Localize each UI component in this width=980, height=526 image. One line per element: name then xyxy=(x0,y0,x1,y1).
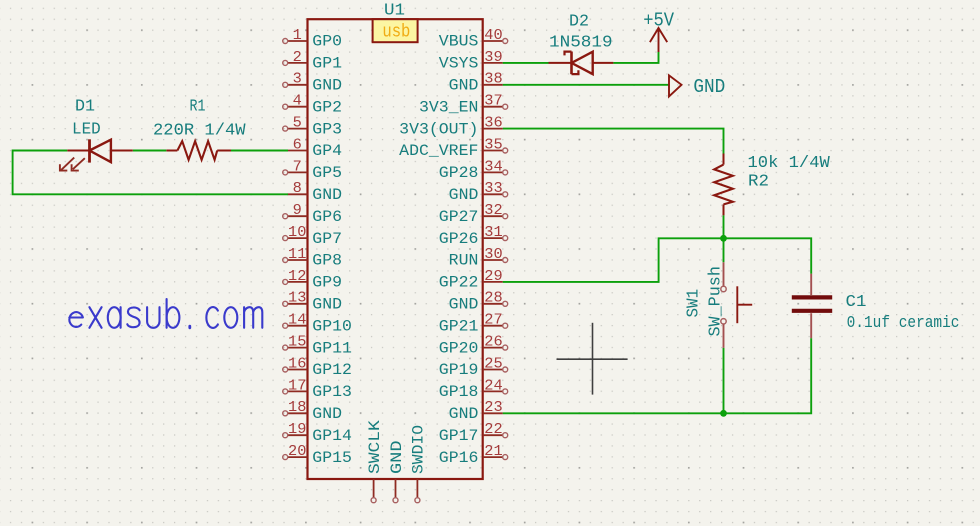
pin 2 (GP1) left xyxy=(283,49,342,73)
svg-text:GND: GND xyxy=(693,76,725,98)
svg-text:GP7: GP7 xyxy=(312,230,342,248)
svg-text:GP13: GP13 xyxy=(312,383,352,401)
svg-text:GP6: GP6 xyxy=(312,208,342,226)
svg-text:3: 3 xyxy=(293,71,302,88)
pin 10 (GP7) left xyxy=(283,224,342,248)
svg-text:18: 18 xyxy=(288,399,306,416)
svg-text:GP19: GP19 xyxy=(439,361,479,379)
svg-text:GP5: GP5 xyxy=(312,164,342,182)
junction bottom xyxy=(720,410,727,417)
svg-text:GP18: GP18 xyxy=(439,383,479,401)
svg-text:20: 20 xyxy=(288,443,306,460)
svg-text:24: 24 xyxy=(484,377,502,394)
svg-text:2: 2 xyxy=(293,49,302,66)
svg-text:usb: usb xyxy=(382,23,410,43)
svg-text:5: 5 xyxy=(293,115,302,132)
pin GND bottom xyxy=(388,441,406,503)
wire D2 to +5V xyxy=(613,52,658,63)
pin 22 (GP17) right xyxy=(439,421,508,445)
wire GP4 pin6 to R1 xyxy=(231,150,288,152)
svg-text:GP12: GP12 xyxy=(312,361,352,379)
svg-text:17: 17 xyxy=(288,377,306,394)
pin SWDIO bottom xyxy=(410,425,428,503)
usb box on U1 xyxy=(373,19,418,42)
wire C1 bottom to junction xyxy=(724,338,812,413)
switch SW1 SW_Push xyxy=(721,262,752,348)
svg-text:C1: C1 xyxy=(846,293,867,312)
svg-text:GND: GND xyxy=(312,405,342,423)
svg-text:15: 15 xyxy=(288,334,306,351)
svg-text:+5V: +5V xyxy=(643,9,674,31)
svg-text:1N5819: 1N5819 xyxy=(549,33,613,52)
svg-text:37: 37 xyxy=(484,93,502,110)
pin 33 (GND) right xyxy=(449,180,508,204)
svg-text:23: 23 xyxy=(484,399,502,416)
pin 3 (GND) left xyxy=(283,71,342,95)
svg-text:D2: D2 xyxy=(569,12,589,31)
pin 34 (GP28) right xyxy=(439,158,508,182)
svg-text:GP15: GP15 xyxy=(312,449,352,467)
svg-text:30: 30 xyxy=(484,246,502,263)
pin 7 (GP5) left xyxy=(283,158,342,182)
svg-text:40: 40 xyxy=(484,27,502,44)
svg-text:SWCLK: SWCLK xyxy=(366,419,384,474)
pin 1 (GP0) left xyxy=(283,27,342,51)
pin 28 (GND) right xyxy=(449,290,508,314)
svg-text:32: 32 xyxy=(484,202,502,219)
resistor R1 xyxy=(166,141,231,160)
svg-text:GND: GND xyxy=(449,296,479,314)
svg-text:VSYS: VSYS xyxy=(439,55,479,73)
svg-text:GP22: GP22 xyxy=(439,274,479,292)
svg-text:8: 8 xyxy=(293,180,302,197)
wire bottom junction to GND pin23 xyxy=(503,412,724,414)
svg-text:39: 39 xyxy=(484,49,502,66)
pin 37 (3V3_EN) right xyxy=(419,93,508,117)
svg-text:GND: GND xyxy=(449,77,479,95)
svg-text:220R 1/4W: 220R 1/4W xyxy=(153,121,246,140)
pin 32 (GP27) right xyxy=(439,202,508,226)
pin 25 (GP19) right xyxy=(439,355,508,379)
svg-text:GP9: GP9 xyxy=(312,274,342,292)
svg-text:GND: GND xyxy=(388,441,406,475)
svg-text:31: 31 xyxy=(484,224,502,241)
svg-text:LED: LED xyxy=(72,121,101,140)
svg-text:19: 19 xyxy=(288,421,306,438)
svg-text:ADC_VREF: ADC_VREF xyxy=(399,142,478,160)
svg-text:3V3(OUT): 3V3(OUT) xyxy=(399,120,478,138)
svg-text:GP14: GP14 xyxy=(312,427,352,445)
svg-text:10k 1/4W: 10k 1/4W xyxy=(748,154,831,173)
svg-text:GND: GND xyxy=(312,186,342,204)
pin 21 (GP16) right xyxy=(439,443,508,467)
capacitor C1 xyxy=(792,274,832,339)
wire VSYS pin39 to D2 xyxy=(503,62,549,64)
diode D2 schottky xyxy=(549,52,614,75)
svg-text:GP3: GP3 xyxy=(312,120,342,138)
svg-text:GP4: GP4 xyxy=(312,142,342,160)
pin 13 (GND) left xyxy=(283,290,342,314)
pin 35 (ADC_VREF) right xyxy=(399,136,508,160)
svg-text:33: 33 xyxy=(484,180,502,197)
wire junction to GP22 pin29 xyxy=(503,238,724,282)
svg-text:GND: GND xyxy=(312,296,342,314)
cursor crosshair xyxy=(557,323,628,395)
wire junction to SW1 xyxy=(723,238,725,262)
svg-text:GP11: GP11 xyxy=(312,339,352,357)
svg-text:GP1: GP1 xyxy=(312,55,342,73)
pin 29 (GP22) right xyxy=(439,268,503,292)
svg-text:7: 7 xyxy=(293,158,302,175)
svg-text:GP2: GP2 xyxy=(312,98,342,116)
pin 11 (GP8) left xyxy=(283,246,342,270)
svg-text:1: 1 xyxy=(293,27,302,44)
svg-text:SW_Push: SW_Push xyxy=(707,266,726,336)
svg-text:36: 36 xyxy=(484,115,502,132)
svg-text:GP0: GP0 xyxy=(312,33,342,51)
svg-text:GP10: GP10 xyxy=(312,317,352,335)
svg-text:U1: U1 xyxy=(384,2,405,21)
pin SWCLK bottom xyxy=(366,419,384,502)
pin 16 (GP12) left xyxy=(283,355,352,379)
watermark text exasub.com xyxy=(69,299,262,328)
svg-text:11: 11 xyxy=(288,246,306,263)
svg-text:R2: R2 xyxy=(748,173,769,192)
svg-text:34: 34 xyxy=(484,158,502,175)
wire GND pin38 to GND flag xyxy=(503,84,669,86)
pin 23 (GND) right xyxy=(449,399,503,423)
svg-text:GND: GND xyxy=(449,405,479,423)
svg-text:VBUS: VBUS xyxy=(439,33,479,51)
svg-text:28: 28 xyxy=(484,290,502,307)
pin 14 (GP10) left xyxy=(283,312,352,336)
pin 31 (GP26) right xyxy=(439,224,508,248)
wire junction to C1 top xyxy=(724,238,812,273)
pin 36 (3V3(OUT)) right xyxy=(399,115,503,139)
svg-text:GP16: GP16 xyxy=(439,449,479,467)
svg-text:0.1uf ceramic: 0.1uf ceramic xyxy=(847,313,960,332)
LED D1 xyxy=(60,139,133,170)
junction top xyxy=(720,235,727,242)
svg-text:22: 22 xyxy=(484,421,502,438)
svg-text:R1: R1 xyxy=(190,98,206,117)
svg-text:RUN: RUN xyxy=(449,252,479,270)
svg-text:12: 12 xyxy=(288,268,306,285)
pin 17 (GP13) left xyxy=(283,377,352,401)
svg-text:GND: GND xyxy=(312,77,342,95)
wire LED to R1 xyxy=(133,150,167,152)
svg-text:GP20: GP20 xyxy=(439,339,479,357)
svg-text:21: 21 xyxy=(484,443,502,460)
svg-text:10: 10 xyxy=(288,224,306,241)
svg-text:9: 9 xyxy=(293,202,302,219)
svg-text:14: 14 xyxy=(288,312,306,329)
wire LED left to loop corner xyxy=(13,151,288,195)
svg-text:29: 29 xyxy=(484,268,502,285)
svg-text:GP17: GP17 xyxy=(439,427,479,445)
pin 24 (GP18) right xyxy=(439,377,508,401)
pin 5 (GP3) left xyxy=(283,115,342,139)
wire SW1 to bottom junction xyxy=(723,348,725,413)
svg-text:GP28: GP28 xyxy=(439,164,479,182)
wire 3V3(OUT) pin36 to R2 xyxy=(503,129,724,154)
pin 38 (GND) right xyxy=(449,71,503,95)
pin 19 (GP14) left xyxy=(283,421,352,445)
svg-text:13: 13 xyxy=(288,290,306,307)
resistor R2 xyxy=(714,154,733,216)
svg-text:38: 38 xyxy=(484,71,502,88)
svg-text:GP26: GP26 xyxy=(439,230,479,248)
svg-text:GP27: GP27 xyxy=(439,208,479,226)
pin 26 (GP20) right xyxy=(439,334,508,358)
wire R2 to junction xyxy=(723,215,725,238)
pin 6 (GP4) left xyxy=(288,136,342,160)
pin 12 (GP9) left xyxy=(283,268,342,292)
svg-text:GND: GND xyxy=(449,186,479,204)
svg-text:3V3_EN: 3V3_EN xyxy=(419,98,478,116)
pin 18 (GND) left xyxy=(283,399,342,423)
pin 9 (GP6) left xyxy=(283,202,342,226)
pin 39 (VSYS) right xyxy=(439,49,503,73)
svg-text:35: 35 xyxy=(484,136,502,153)
ground flag GND xyxy=(669,75,725,98)
svg-text:4: 4 xyxy=(293,93,302,110)
svg-text:SWDIO: SWDIO xyxy=(410,425,428,474)
svg-text:D1: D1 xyxy=(75,98,95,117)
svg-text:SW1: SW1 xyxy=(684,289,703,318)
pin 20 (GP15) left xyxy=(283,443,352,467)
svg-text:26: 26 xyxy=(484,334,502,351)
pin 4 (GP2) left xyxy=(283,93,342,117)
svg-text:6: 6 xyxy=(293,136,302,153)
svg-text:16: 16 xyxy=(288,355,306,372)
pin 15 (GP11) left xyxy=(283,334,352,358)
svg-text:GP8: GP8 xyxy=(312,252,342,270)
pin 40 (VBUS) right xyxy=(439,27,508,51)
svg-text:25: 25 xyxy=(484,355,502,372)
pin 30 (RUN) right xyxy=(449,246,508,270)
pin 8 (GND) left xyxy=(288,180,342,204)
svg-text:27: 27 xyxy=(484,312,502,329)
IC U1 body (RP2040 Pico) xyxy=(308,19,483,479)
pin 27 (GP21) right xyxy=(439,312,508,336)
svg-text:GP21: GP21 xyxy=(439,317,479,335)
power symbol +5V xyxy=(643,9,674,52)
